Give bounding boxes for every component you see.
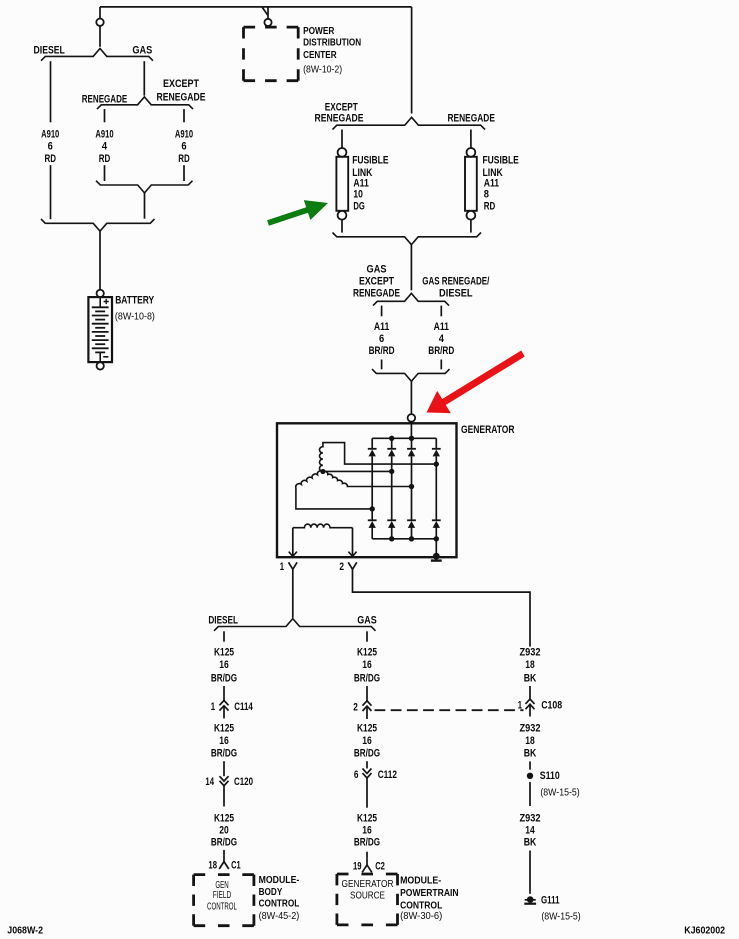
wire M1 output (144, 193, 146, 219)
svg-text:KJ602002: KJ602002 (684, 926, 725, 937)
junction dot bottom bus c4 (434, 536, 439, 541)
svg-text:RD: RD (178, 153, 190, 165)
svg-text:C2: C2 (375, 861, 385, 873)
powertrain control module dashed box (337, 873, 398, 876)
battery positive terminal circle (97, 290, 104, 297)
svg-text:A11: A11 (374, 321, 389, 333)
svg-text:K125: K125 (214, 722, 234, 734)
wire stub A11-6 upper (381, 306, 383, 317)
svg-text:BATTERY: BATTERY (115, 295, 154, 307)
svg-text:A910: A910 (41, 128, 59, 140)
svg-text:Z932: Z932 (520, 813, 541, 825)
field winding coil (293, 524, 353, 528)
svg-text:POWER: POWER (303, 26, 335, 37)
generator terminal circle (408, 414, 416, 422)
terminal 2 chevron (348, 562, 357, 569)
wire K125 gas stub (366, 631, 368, 641)
svg-text:CENTER: CENTER (303, 50, 337, 61)
fusible link A11 8 RD (renegade) (467, 148, 476, 157)
stator wye center dot (320, 469, 325, 474)
svg-text:K125: K125 (357, 813, 377, 825)
svg-text:DISTRIBUTION: DISTRIBUTION (303, 38, 361, 49)
wire M2 to battery (99, 231, 101, 289)
field arrowhead terminal 1 (289, 552, 297, 557)
svg-text:FUSIBLE: FUSIBLE (483, 155, 519, 167)
svg-text:RENEGADE: RENEGADE (353, 287, 400, 299)
red callout arrow (427, 351, 525, 414)
wire drop to node A (99, 7, 101, 19)
split S1 diesel/gas (41, 49, 153, 61)
split S4 (373, 293, 449, 305)
wire gas branch (143, 61, 145, 95)
dashed wire link to C108 (375, 709, 524, 711)
wire to C112 connector 2 (366, 686, 368, 701)
wire top right vertical (411, 7, 413, 114)
battery internal plates (99, 297, 101, 307)
svg-text:GENERATOR: GENERATOR (342, 879, 394, 890)
junction dot phase C on c1 (370, 506, 375, 511)
svg-text:18: 18 (525, 735, 535, 747)
svg-text:1: 1 (211, 701, 215, 713)
svg-text:BR/DG: BR/DG (211, 837, 237, 849)
svg-text:K125: K125 (214, 646, 234, 658)
svg-text:K125: K125 (357, 646, 377, 658)
rectifier column 2 (391, 438, 393, 449)
svg-text:6: 6 (181, 141, 186, 153)
connector C108 symbol (526, 699, 535, 704)
svg-text:GAS RENEGADE/: GAS RENEGADE/ (422, 276, 489, 288)
wire diesel branch upper (50, 61, 52, 122)
stator winding phase C (to lower left) (296, 471, 372, 509)
rectifier bottom bus (372, 538, 436, 540)
diode D7 bottom (407, 519, 416, 521)
svg-text:4: 4 (102, 141, 108, 153)
svg-text:BK: BK (524, 748, 537, 760)
rectifier column 1 (371, 438, 373, 449)
connector C112 symbol (363, 769, 372, 774)
svg-text:CONTROL: CONTROL (207, 902, 237, 913)
rectifier top bus (372, 437, 436, 439)
svg-text:18: 18 (525, 659, 535, 671)
diode D3 top (407, 448, 416, 450)
wire M3 output (410, 245, 412, 291)
svg-text:(8W-45-2): (8W-45-2) (259, 911, 300, 922)
wire generator terminal 1 down (292, 569, 294, 618)
svg-text:16: 16 (219, 735, 229, 747)
junction dot phase A on c4 (434, 461, 439, 466)
generator internal ground (433, 553, 440, 560)
svg-text:DIESEL: DIESEL (34, 45, 66, 57)
svg-text:C120: C120 (234, 776, 253, 788)
svg-text:S110: S110 (540, 770, 560, 782)
svg-text:C108: C108 (541, 700, 562, 712)
wire terminal into box (410, 422, 412, 439)
svg-text:BR/DG: BR/DG (211, 672, 237, 684)
svg-text:2: 2 (339, 561, 344, 573)
wire diesel branch lower (50, 165, 52, 219)
svg-text:16: 16 (362, 735, 372, 747)
svg-text:DG: DG (353, 201, 364, 213)
svg-text:DIESEL: DIESEL (439, 287, 473, 299)
svg-text:(8W-15-5): (8W-15-5) (540, 787, 579, 798)
fusible link A11 10 DG (except renegade) (338, 148, 347, 157)
svg-text:(8W-10-2): (8W-10-2) (303, 64, 342, 75)
svg-text:RENEGADE: RENEGADE (157, 92, 206, 104)
battery B1 box (88, 297, 112, 362)
diode D6 bottom (387, 519, 396, 521)
wire except-renegade lower stub (183, 165, 185, 181)
svg-text:BR/DG: BR/DG (354, 748, 380, 760)
svg-text:14: 14 (205, 776, 214, 788)
svg-text:K125: K125 (214, 813, 234, 825)
svg-text:C1: C1 (231, 860, 241, 872)
connector C1 symbol (223, 856, 225, 862)
wire to right fusible link (470, 130, 472, 149)
wire below left link (341, 220, 343, 233)
svg-text:4: 4 (439, 333, 445, 345)
stator winding phase A (vertical coil) (320, 443, 437, 472)
junction dot top bus c2 (389, 436, 394, 441)
body control module dashed box (194, 873, 254, 876)
wire to C120 (223, 761, 225, 776)
svg-text:GAS: GAS (357, 614, 376, 626)
wire stub A11-6 lower (381, 360, 383, 370)
connector 2 symbol (gas) (363, 701, 372, 706)
diode D4 top (432, 448, 441, 450)
svg-text:POWERTRAIN: POWERTRAIN (400, 888, 459, 899)
wire top horizontal bus (100, 6, 412, 8)
field wire to terminal 2 (352, 528, 354, 556)
wire to ground G111 (529, 851, 531, 894)
field wire to terminal 1 (292, 528, 294, 556)
green callout arrow (267, 200, 328, 226)
svg-text:BR/DG: BR/DG (354, 672, 380, 684)
power distribution center dashed box (244, 26, 299, 29)
svg-text:BK: BK (524, 837, 537, 849)
svg-text:GENERATOR: GENERATOR (461, 424, 515, 436)
stator center tap wire (323, 470, 392, 472)
stator winding phase B (to lower right) (323, 471, 412, 486)
field arrowhead terminal 2 (348, 552, 356, 557)
merge M2 (41, 219, 155, 231)
svg-text:BODY: BODY (259, 887, 283, 898)
svg-text:RD: RD (484, 201, 496, 213)
svg-text:C114: C114 (234, 701, 253, 713)
svg-text:BK: BK (524, 672, 537, 684)
svg-text:(8W-30-6): (8W-30-6) (400, 911, 442, 922)
merge M4 (372, 369, 450, 381)
svg-text:RD: RD (99, 153, 111, 165)
connector C120 symbol (220, 776, 229, 781)
svg-text:10: 10 (353, 189, 363, 201)
generator box (277, 423, 457, 557)
merge M3 (333, 233, 482, 245)
wire except-renegade stub (183, 109, 185, 122)
svg-text:BR/RD: BR/RD (369, 345, 395, 357)
svg-text:1: 1 (280, 561, 284, 573)
wire stub A11-4 upper (440, 306, 442, 317)
splice S110 dot (527, 773, 533, 779)
rectifier column 4 (435, 438, 437, 449)
svg-text:BR/RD: BR/RD (428, 345, 454, 357)
wire to C2 (366, 852, 368, 859)
svg-text:MODULE-: MODULE- (259, 875, 300, 886)
svg-text:2: 2 (353, 702, 358, 714)
ground G111 symbol (527, 896, 534, 903)
wire node A to split (99, 26, 101, 47)
split S5 diesel/gas (214, 619, 376, 631)
wire c4 to ground (435, 539, 437, 555)
svg-text:19: 19 (353, 861, 362, 873)
wire below right link (470, 220, 472, 233)
svg-text:J068W-2: J068W-2 (7, 926, 43, 937)
svg-text:A910: A910 (175, 128, 193, 140)
wire to C114 (223, 686, 225, 700)
connector C114 symbol (220, 700, 229, 705)
node PDC terminal circle (264, 19, 271, 26)
svg-text:EXCEPT: EXCEPT (163, 78, 199, 90)
battery plus sign (104, 299, 109, 304)
svg-text:GAS: GAS (132, 45, 152, 57)
wire to left fusible link (341, 130, 343, 149)
wire M4 to generator (410, 381, 412, 414)
svg-text:RENEGADE: RENEGADE (315, 112, 364, 124)
wire to splice S110 (529, 761, 531, 769)
svg-text:(8W-10-8): (8W-10-8) (115, 312, 155, 323)
svg-text:6: 6 (379, 333, 384, 345)
svg-text:C112: C112 (378, 769, 397, 781)
node A terminal circle (96, 19, 103, 26)
svg-text:BR/DG: BR/DG (211, 748, 237, 760)
diode D5 bottom (368, 519, 377, 521)
svg-text:6: 6 (354, 769, 359, 781)
svg-text:8: 8 (484, 189, 489, 201)
svg-text:RENEGADE: RENEGADE (447, 112, 495, 124)
svg-text:CONTROL: CONTROL (259, 899, 300, 910)
wire generator terminal 2 down and over (353, 569, 531, 646)
svg-text:G111: G111 (541, 895, 560, 907)
battery minus sign (103, 356, 108, 358)
rectifier column 3 (411, 438, 413, 449)
wire below S110 (529, 782, 531, 806)
svg-text:A11: A11 (434, 321, 449, 333)
connector C2 symbol (366, 859, 368, 865)
svg-text:20: 20 (219, 825, 229, 837)
splice tap to PDC (262, 7, 268, 19)
svg-text:CONTROL: CONTROL (400, 901, 442, 912)
svg-text:RD: RD (44, 153, 56, 165)
svg-text:A910: A910 (95, 128, 113, 140)
junction dot center tap on c2 (389, 469, 394, 474)
svg-text:EXCEPT: EXCEPT (359, 276, 394, 288)
svg-text:DIESEL: DIESEL (208, 614, 238, 626)
svg-text:RENEGADE: RENEGADE (82, 94, 128, 106)
svg-text:(8W-15-5): (8W-15-5) (541, 911, 580, 922)
svg-text:FIELD: FIELD (213, 890, 231, 901)
svg-text:Z932: Z932 (520, 646, 541, 658)
svg-text:Z932: Z932 (520, 722, 541, 734)
svg-text:16: 16 (362, 825, 372, 837)
svg-text:MODULE-: MODULE- (400, 876, 441, 887)
svg-text:FUSIBLE: FUSIBLE (352, 155, 388, 167)
junction dot bottom bus c3 (409, 536, 414, 541)
diode D2 top (387, 448, 396, 450)
wire to C108 (529, 686, 531, 699)
merge M1 (96, 181, 193, 193)
svg-text:BR/DG: BR/DG (354, 837, 380, 849)
split S2 renegade/except (97, 97, 193, 109)
terminal 1 chevron (289, 562, 298, 569)
wire to C112 (366, 761, 368, 768)
junction dot phase B on c3 (409, 484, 414, 489)
wire to C1 (223, 850, 225, 856)
svg-text:SOURCE: SOURCE (350, 891, 385, 902)
junction dot bottom bus c2 (389, 536, 394, 541)
svg-text:14: 14 (525, 825, 535, 837)
svg-text:1: 1 (518, 700, 522, 712)
wire renegade stub (104, 109, 106, 122)
svg-text:16: 16 (362, 659, 372, 671)
diode D8 bottom (432, 519, 441, 521)
battery negative terminal circle (97, 362, 104, 369)
wire stub A11-4 lower (440, 360, 442, 370)
svg-text:18: 18 (208, 860, 217, 872)
split S3 (333, 117, 486, 129)
svg-text:6: 6 (48, 141, 53, 153)
junction dot top bus c3 (409, 436, 414, 441)
svg-text:16: 16 (219, 659, 229, 671)
diode D1 top (368, 448, 377, 450)
svg-text:GEN: GEN (215, 880, 228, 891)
svg-text:GAS: GAS (367, 264, 387, 276)
wire renegade lower stub (104, 165, 106, 181)
wire K125 diesel stub (223, 631, 225, 641)
svg-text:K125: K125 (357, 722, 377, 734)
